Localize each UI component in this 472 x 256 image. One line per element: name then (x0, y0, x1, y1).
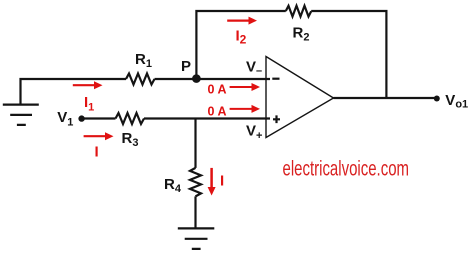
svg-text:R1: R1 (135, 51, 152, 70)
svg-text:V1: V1 (57, 109, 73, 129)
svg-text:V+: V+ (246, 122, 262, 142)
svg-text:0 A: 0 A (208, 104, 227, 118)
svg-text:0 A: 0 A (208, 82, 227, 96)
svg-text:I: I (220, 173, 224, 190)
svg-text:I: I (95, 144, 99, 161)
svg-text:R3: R3 (122, 130, 139, 149)
svg-text:electricalvoice.com: electricalvoice.com (283, 157, 410, 180)
svg-text:R2: R2 (293, 25, 310, 44)
svg-text:P: P (181, 58, 191, 75)
svg-text:R4: R4 (164, 176, 182, 195)
svg-text:Vo1: Vo1 (445, 92, 468, 111)
svg-text:I1: I1 (84, 94, 94, 114)
svg-text:I2: I2 (236, 28, 247, 47)
svg-text:V–: V– (246, 58, 262, 77)
